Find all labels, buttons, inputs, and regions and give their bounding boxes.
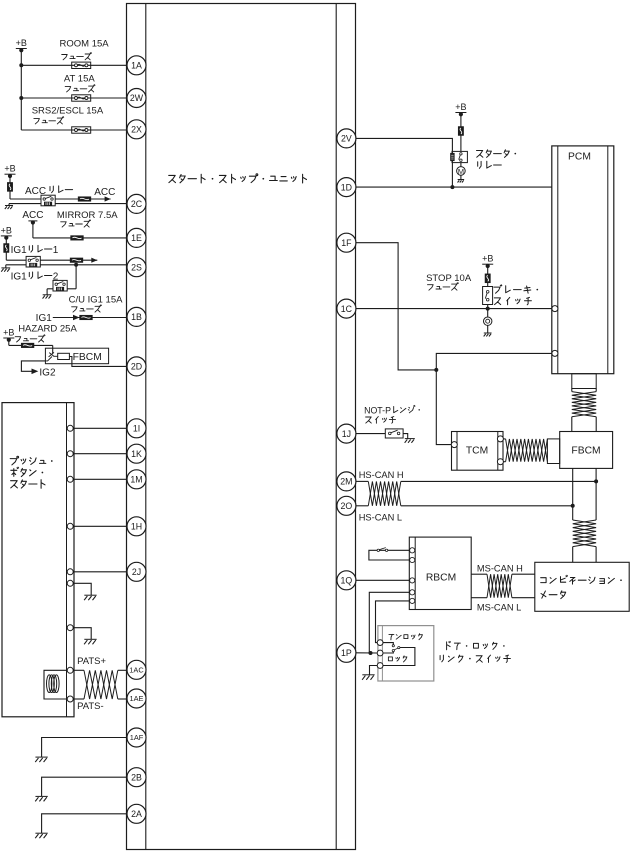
svg-text:1C: 1C — [341, 304, 353, 314]
svg-text:+B: +B — [3, 328, 14, 338]
svg-text:2C: 2C — [131, 199, 143, 209]
svg-text:RBCM: RBCM — [426, 572, 456, 583]
svg-text:FBCM: FBCM — [73, 352, 102, 363]
svg-text:1M: 1M — [130, 475, 142, 485]
svg-text:ROOM 15A: ROOM 15A — [60, 39, 110, 50]
svg-text:2M: 2M — [340, 477, 352, 487]
svg-text:1D: 1D — [341, 182, 352, 192]
svg-text:PCM: PCM — [568, 152, 591, 163]
svg-text:ACC: ACC — [94, 187, 115, 198]
svg-text:FBCM: FBCM — [571, 446, 600, 457]
svg-text:1AC: 1AC — [129, 666, 144, 675]
svg-text:STOP 10A: STOP 10A — [426, 273, 472, 284]
svg-text:+B: +B — [455, 102, 466, 112]
svg-text:2X: 2X — [131, 125, 142, 135]
svg-text:ACC: ACC — [22, 210, 43, 221]
svg-text:2O: 2O — [341, 501, 353, 511]
svg-text:1AE: 1AE — [130, 694, 144, 703]
svg-text:AT 15A: AT 15A — [64, 73, 95, 84]
svg-text:1A: 1A — [131, 61, 142, 71]
svg-text:+B: +B — [16, 38, 27, 48]
svg-text:1AF: 1AF — [130, 733, 144, 742]
svg-text:2J: 2J — [132, 567, 141, 577]
svg-text:2D: 2D — [131, 362, 142, 372]
svg-text:2W: 2W — [130, 93, 144, 103]
svg-text:1J: 1J — [342, 429, 351, 439]
svg-text:ACC: ACC — [25, 186, 46, 197]
svg-text:HS-CAN L: HS-CAN L — [359, 512, 402, 522]
svg-text:PATS-: PATS- — [77, 701, 104, 712]
svg-text:MS-CAN H: MS-CAN H — [477, 564, 523, 574]
svg-text:1: 1 — [53, 245, 59, 256]
svg-text:IG1: IG1 — [11, 245, 28, 256]
svg-text:1I: 1I — [133, 424, 140, 434]
svg-text:TCM: TCM — [466, 446, 488, 457]
svg-text:IG1: IG1 — [11, 272, 28, 283]
svg-text:C/U IG1 15A: C/U IG1 15A — [69, 295, 124, 306]
svg-text:1P: 1P — [341, 648, 352, 658]
svg-text:1B: 1B — [131, 312, 142, 322]
svg-text:1F: 1F — [341, 238, 352, 248]
svg-text:+B: +B — [1, 225, 12, 235]
svg-text:MIRROR 7.5A: MIRROR 7.5A — [57, 210, 118, 221]
svg-text:IG1: IG1 — [36, 313, 53, 324]
svg-text:HAZARD 25A: HAZARD 25A — [18, 323, 77, 334]
svg-text:1E: 1E — [131, 233, 142, 243]
svg-text:1H: 1H — [131, 522, 142, 532]
svg-text:2S: 2S — [131, 262, 142, 272]
svg-text:+B: +B — [482, 254, 493, 264]
svg-text:1Q: 1Q — [341, 576, 353, 586]
svg-text:PATS+: PATS+ — [77, 656, 106, 667]
svg-text:1K: 1K — [131, 449, 142, 459]
svg-text:2B: 2B — [131, 772, 142, 782]
svg-text:IG2: IG2 — [39, 367, 56, 378]
svg-text:NOT-P: NOT-P — [364, 405, 391, 415]
svg-text:2V: 2V — [341, 134, 352, 144]
svg-text:2A: 2A — [131, 809, 142, 819]
svg-text:HS-CAN H: HS-CAN H — [359, 470, 404, 480]
svg-text:M: M — [458, 167, 464, 176]
svg-text:SRS2/ESCL 15A: SRS2/ESCL 15A — [32, 105, 104, 116]
svg-text:+B: +B — [4, 164, 15, 174]
svg-text:MS-CAN L: MS-CAN L — [477, 602, 521, 612]
